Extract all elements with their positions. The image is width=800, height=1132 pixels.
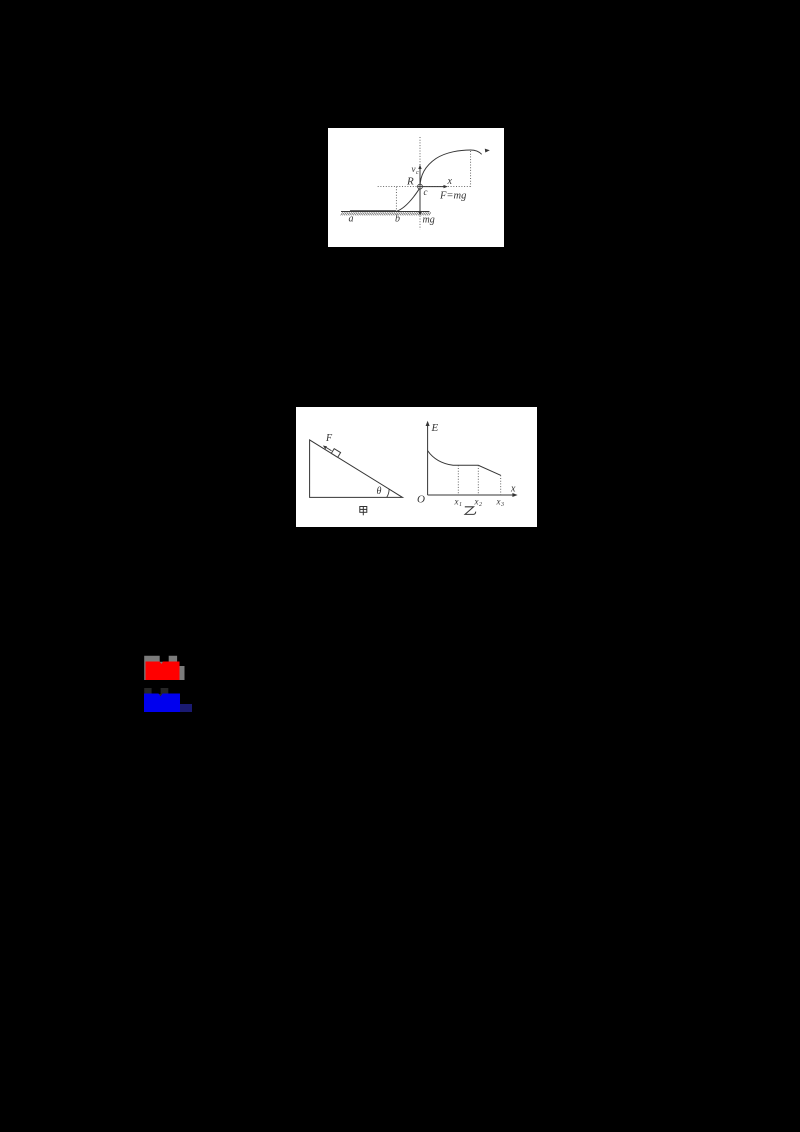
vertical dotted line through c <box>419 137 421 166</box>
svg-text:v: v <box>412 164 416 174</box>
svg-text:mg: mg <box>423 215 435 226</box>
horizontal dotted line through c <box>378 186 472 188</box>
force F arrow <box>324 446 331 450</box>
trajectory curve b to c <box>397 187 421 211</box>
wire trajectory along ground a to b <box>350 210 396 212</box>
angle arc <box>387 489 389 497</box>
mg arrow down at c <box>419 189 421 213</box>
dotted line x2 <box>477 465 479 495</box>
block on slope <box>331 449 340 458</box>
svg-text:O: O <box>417 494 425 506</box>
red answer label block <box>140 652 190 684</box>
svg-text:b: b <box>395 214 400 225</box>
x axis arrow right at c <box>423 186 446 188</box>
svg-text:2: 2 <box>479 502 482 508</box>
svg-text:a: a <box>349 214 354 225</box>
figure box 1: ground launch trajectory diagram <box>328 128 504 247</box>
svg-text:x: x <box>447 176 453 187</box>
svg-text:R: R <box>406 176 414 188</box>
label yi (CJK drawn) <box>465 507 476 515</box>
E-x curve <box>428 451 501 476</box>
point c circle <box>418 184 423 189</box>
vertical dotted line at trajectory peak <box>470 151 472 187</box>
svg-text:F=mg: F=mg <box>439 191 466 202</box>
svg-text:3: 3 <box>500 502 504 508</box>
trajectory curve c to peak <box>420 150 482 187</box>
svg-text:F: F <box>325 433 333 444</box>
E axis <box>427 424 429 496</box>
svg-text:x: x <box>496 497 501 507</box>
svg-text:x: x <box>474 497 479 507</box>
svg-text:c: c <box>416 170 419 176</box>
svg-text:E: E <box>431 422 439 434</box>
arrowhead mg down <box>418 211 421 215</box>
arrowhead x right <box>444 185 448 188</box>
dotted line x3 <box>500 475 502 495</box>
ground hatching <box>341 212 431 215</box>
dotted line x1 <box>457 465 459 495</box>
svg-text:c: c <box>424 187 428 197</box>
vertical dotted line at b <box>395 187 397 212</box>
svg-text:x: x <box>510 484 516 495</box>
svg-text:1: 1 <box>459 502 462 508</box>
x axis <box>428 494 515 496</box>
arrowhead trajectory end <box>485 149 490 153</box>
svg-text:x: x <box>454 497 459 507</box>
incline triangle <box>310 440 403 498</box>
ground line <box>341 211 430 213</box>
label jia (CJK drawn) <box>360 507 367 516</box>
svg-text:θ: θ <box>377 486 382 497</box>
blue analysis label block <box>140 684 196 716</box>
figure box 2: incline and E-x graph <box>296 407 537 527</box>
velocity arrow up at c <box>419 168 421 185</box>
arrowhead v up <box>418 165 421 169</box>
